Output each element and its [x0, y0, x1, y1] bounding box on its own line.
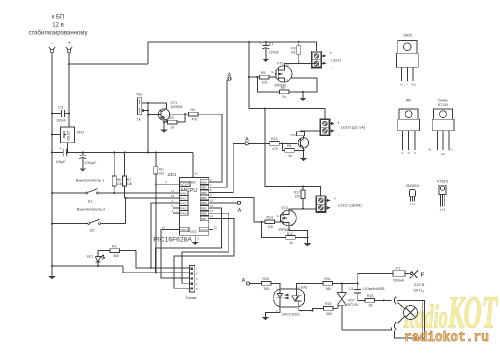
svg-text:14: 14 [195, 172, 199, 176]
pin RB4 [200, 199, 213, 206]
wire mains loop [395, 300, 425, 337]
node junction +12 [68, 63, 70, 65]
svg-text:DA1: DA1 [301, 285, 308, 289]
wire +12 riser x148 [147, 42, 149, 64]
resistor R3 10k [290, 41, 300, 65]
pin RB0 [200, 178, 213, 185]
svg-text:DD1: DD1 [168, 172, 177, 177]
opto internal triac [292, 289, 302, 307]
wire to connector pin1 [136, 251, 190, 268]
svg-text:R8: R8 [287, 144, 292, 148]
svg-text:OSC2: OSC2 [200, 228, 209, 232]
svg-text:360: 360 [113, 254, 119, 258]
svg-text:+: + [260, 42, 262, 46]
SECTION: pot vt1 [137, 93, 222, 183]
package BT139 TO-220 [428, 99, 454, 157]
svg-text:HL1: HL1 [87, 255, 93, 259]
svg-text:VT3: VT3 [290, 133, 296, 137]
switch S1 [51, 178, 179, 204]
svg-text:G: G [401, 151, 403, 155]
svg-text:VT2: VT2 [277, 62, 284, 66]
pin OSC2 [199, 226, 217, 232]
wire RB5 down-around [156, 208, 222, 273]
svg-text:39: 39 [369, 304, 373, 308]
svg-text:A: A [238, 208, 242, 214]
svg-text:Схема: Схема [186, 296, 197, 300]
lamp load [398, 303, 418, 324]
switch S2 [51, 197, 127, 233]
wire OSC1 to connector pin3 [161, 230, 190, 279]
optocoupler DA1 MOC3052 body [274, 285, 308, 316]
node A3 RB4 [213, 201, 242, 214]
transistor VT2 IRF540 [272, 62, 292, 88]
resistor R13 470 [270, 137, 298, 151]
op-amp U1 MCU DD1 body [153, 172, 208, 244]
svg-text:G: G [451, 148, 453, 152]
svg-text:1k: 1k [282, 95, 286, 99]
wire +12 input [68, 53, 70, 127]
svg-text:R15: R15 [325, 302, 331, 306]
svg-text:RA1: RA1 [180, 196, 186, 200]
svg-text:RB0: RB0 [201, 180, 207, 184]
svg-text:R5: R5 [261, 71, 266, 75]
package 7805 TO-220 [397, 33, 419, 87]
label mains voltage [414, 282, 425, 293]
pin RA4 [172, 209, 188, 216]
pin RB3 [200, 193, 213, 200]
svg-text:470: 470 [272, 147, 278, 151]
resistor R15 360 gate [313, 302, 338, 316]
svg-text:RB5: RB5 [201, 206, 207, 210]
svg-text:220uF: 220uF [269, 51, 279, 55]
potentiometer R speed [137, 93, 149, 122]
svg-text:radiokot.ru: radiokot.ru [404, 331, 489, 346]
wire VT4 drain up [289, 209, 303, 211]
svg-text:R11: R11 [325, 277, 331, 281]
SECTION: power input [28, 15, 316, 280]
svg-text:F: F [421, 272, 425, 278]
svg-text:1k: 1k [171, 125, 175, 129]
wire VT1 collector [170, 113, 189, 115]
svg-text:11: 11 [210, 204, 213, 208]
svg-text:э б к: э б к [410, 202, 416, 206]
resistor R17 [294, 187, 305, 210]
svg-text:S: S [287, 79, 289, 83]
resistor R12 1k gate-source [262, 222, 308, 245]
svg-text:VT4: VT4 [281, 206, 288, 210]
svg-text:360: 360 [326, 312, 332, 316]
svg-text:1k: 1k [288, 154, 292, 158]
svg-text:A2: A2 [441, 152, 445, 156]
wire RB3 to R14 [213, 198, 262, 222]
svg-text:R12: R12 [287, 232, 293, 236]
svg-text:10k: 10k [295, 195, 301, 199]
wire VT2 drain rail [289, 62, 317, 64]
capacitor C4 snubber [349, 284, 385, 301]
svg-text:2N3904: 2N3904 [406, 184, 419, 188]
transistor VT1 [147, 101, 182, 122]
svg-text:+: + [68, 41, 71, 47]
package 2N3904 TO-92 [406, 184, 419, 206]
svg-text:Выключатель 2: Выключатель 2 [77, 207, 106, 212]
svg-text:Выключатель 1: Выключатель 1 [76, 178, 105, 183]
resistor R9 1k gate-source [257, 77, 289, 99]
svg-text:R13: R13 [271, 137, 277, 141]
wire node A to R13 [248, 142, 269, 144]
ground main left [48, 266, 56, 279]
pin RB7 [200, 214, 213, 221]
svg-text:R1: R1 [112, 245, 117, 249]
svg-text:100nF: 100nF [56, 119, 66, 123]
svg-text:IRF: IRF [406, 99, 412, 103]
node A2 to RB1 [213, 72, 231, 187]
svg-text:R18: R18 [367, 294, 373, 298]
wire VT4 source down [289, 226, 308, 238]
svg-text:10k: 10k [127, 182, 133, 186]
resistor R2 1k [164, 114, 185, 129]
capacitor C1 220uF [260, 41, 279, 62]
svg-text:1000μF: 1000μF [85, 161, 97, 165]
svg-text:VR1: VR1 [77, 130, 86, 135]
svg-text:7805: 7805 [403, 33, 413, 38]
SECTION: moc triac mains [242, 266, 425, 338]
package KT815 TO-126 [437, 179, 448, 211]
svg-text:10k: 10k [290, 51, 296, 55]
svg-text:R14: R14 [267, 216, 273, 220]
svg-text:RA3: RA3 [180, 206, 186, 210]
resistor R1 360 [98, 245, 136, 259]
svg-text:R2: R2 [170, 116, 175, 120]
SECTION: vt2 led1 [213, 41, 342, 193]
svg-text:18: 18 [171, 194, 175, 198]
svg-text:12 в: 12 в [52, 23, 64, 29]
svg-text:12: 12 [210, 209, 214, 213]
resistor R7 10k pullup [123, 153, 133, 199]
resistor R6 10k pullup [112, 153, 122, 194]
SECTION: watermark [404, 331, 489, 346]
svg-text:стабилизированному: стабилизированному [28, 31, 87, 37]
svg-text:360: 360 [326, 287, 332, 291]
svg-text:MCLR: MCLR [180, 183, 189, 187]
svg-text:Рег.: Рег. [137, 93, 143, 97]
wire HL1 bottom rail [52, 265, 123, 267]
wire +5 rail [52, 152, 193, 154]
SECTION: rails switches [51, 146, 193, 274]
resistor R11 MCLR pullup [154, 153, 180, 274]
svg-text:220 В: 220 В [414, 282, 425, 287]
pin RA0 [171, 189, 188, 196]
pin MCLR [165, 180, 190, 187]
resistor R11b 360 [323, 277, 359, 291]
svg-text:17: 17 [171, 189, 175, 193]
svg-text:78L05: 78L05 [67, 131, 71, 142]
svg-text:э к б: э к б [440, 207, 446, 211]
svg-text:RB4: RB4 [201, 201, 207, 205]
svg-text:+: + [334, 196, 337, 201]
svg-text:2N3904: 2N3904 [171, 105, 183, 109]
SECTION: vt3 led3 [248, 108, 365, 162]
svg-text:100: 100 [268, 225, 274, 229]
wire RB6 to connector pin4 [182, 213, 229, 283]
terminal X- [49, 47, 55, 53]
svg-text:0.01мкФх630В: 0.01мкФх630В [363, 287, 386, 291]
svg-text:RB6: RB6 [201, 212, 207, 216]
resistor R5 100 [248, 71, 276, 85]
svg-text:10: 10 [210, 199, 214, 203]
label power input text [28, 15, 87, 47]
svg-text:C4: C4 [349, 287, 354, 291]
regulator VR1 [51, 127, 85, 153]
capacitor C2 1000uF [79, 153, 96, 172]
pin RB2 [200, 188, 213, 195]
wire RB7 to connector pin5 [174, 218, 234, 288]
svg-text:16: 16 [162, 225, 166, 229]
wire bottom rail to plug [342, 328, 392, 330]
svg-text:RA4: RA4 [180, 211, 186, 215]
wire VDD [193, 153, 198, 178]
svg-text:C3: C3 [58, 105, 64, 110]
pin RB5 [200, 204, 213, 211]
LED HL1 [87, 251, 105, 266]
svg-text:КТ815: КТ815 [437, 179, 448, 183]
node VT1 emitter [163, 121, 165, 123]
wire +12 feed drop x248.9 [248, 41, 250, 43]
svg-text:A: A [242, 278, 246, 284]
fuse F1 [358, 266, 410, 283]
wire opto pin2 to ground [262, 307, 280, 320]
SECTION: packages [397, 33, 454, 212]
SECTION: vt4 led2 [213, 109, 362, 247]
plug contact lower [394, 322, 396, 330]
resistor R8 1k base-emitter [282, 143, 304, 157]
svg-text:10k: 10k [117, 182, 123, 186]
svg-text:S: S [414, 151, 416, 155]
wire VT2 drain up [285, 63, 289, 66]
svg-text:15: 15 [214, 226, 218, 230]
svg-text:VSS: VSS [190, 230, 196, 234]
wire top +12 rail [148, 41, 317, 43]
svg-text:к БП: к БП [52, 15, 65, 21]
terminal X+ [66, 47, 72, 53]
wire RA1 net [125, 197, 180, 199]
svg-text:R9: R9 [281, 86, 285, 90]
pin OSC1 [162, 225, 189, 232]
svg-text:470: 470 [192, 118, 198, 122]
transistor VT3 KT815 [298, 136, 308, 148]
disconnect X mains [410, 270, 425, 278]
svg-text:OSC1: OSC1 [180, 228, 189, 232]
pin RA2 [172, 199, 188, 206]
svg-text:+: + [330, 51, 333, 56]
resistor R14 100 [262, 216, 281, 230]
svg-text:RA2: RA2 [180, 201, 186, 205]
svg-text:10k: 10k [159, 172, 165, 176]
svg-text:1k: 1k [137, 118, 141, 122]
SECTION: mcu [151, 153, 234, 300]
svg-text:S2: S2 [90, 228, 96, 233]
capacitor C5 100uF series [56, 146, 68, 165]
svg-text:A1: A1 [428, 148, 432, 152]
wire VT2 source [289, 78, 317, 92]
svg-text:BT139: BT139 [348, 303, 358, 307]
pin RA3 [172, 204, 188, 211]
svg-text:PIC16F628A: PIC16F628A [153, 237, 192, 244]
svg-text:RB2: RB2 [201, 191, 207, 195]
svg-text:S: S [291, 223, 293, 227]
connector X1 [186, 266, 198, 300]
opto internal LED [277, 289, 289, 307]
svg-text:500мА: 500мА [393, 278, 404, 282]
transistor VT4 IRF540 [277, 206, 297, 232]
svg-text:LED1: LED1 [331, 58, 342, 63]
svg-text:Out: Out [411, 83, 416, 87]
capacitor C3 [51, 105, 70, 123]
svg-text:RB7: RB7 [201, 217, 207, 221]
svg-text:RA0: RA0 [180, 191, 186, 195]
resistor R18 39 [358, 294, 392, 307]
wire RA2 to connector pin1 [151, 203, 180, 268]
wire top rail corner to LED1 [316, 42, 318, 52]
triac VD7 BT139 [337, 284, 358, 330]
wire GND left rail [51, 53, 53, 266]
svg-text:S1: S1 [88, 199, 94, 204]
resistor R4 470 [189, 108, 222, 122]
node A4 input [242, 278, 250, 285]
svg-text:R16: R16 [263, 277, 269, 281]
wire x148 drop [147, 103, 149, 153]
svg-text:360: 360 [264, 287, 270, 291]
pin RA1 [171, 194, 188, 201]
svg-text:LED3 (до 1А): LED3 (до 1А) [341, 124, 366, 129]
svg-text:BT139: BT139 [438, 103, 448, 107]
wire R4 to RB0 [213, 114, 222, 182]
wire opto pin4 [299, 307, 313, 311]
package IRF TO-220 [398, 99, 420, 155]
resistor R16 360 [250, 277, 280, 291]
wire feed to LED3 [249, 109, 325, 119]
wire VT3 emitter + ground [300, 148, 307, 161]
svg-text:C1: C1 [269, 42, 274, 46]
svg-text:100: 100 [262, 80, 268, 84]
wire VSS to ground [192, 235, 200, 245]
wire opto pin6 to R11b [297, 284, 323, 290]
pin RB6 [200, 209, 213, 216]
wire feed drop to LED2 row [265, 109, 321, 196]
terminal block LED3 [320, 119, 366, 138]
wire +12 horizontal [69, 63, 148, 65]
wire LED2 minus to drain node [303, 208, 317, 210]
svg-text:LED2 (ШИМ): LED2 (ШИМ) [338, 203, 362, 208]
pin RB1 [200, 183, 213, 190]
terminal block LED1 [312, 51, 343, 70]
svg-text:100μF: 100μF [56, 160, 66, 164]
svg-text:D: D [408, 151, 410, 155]
svg-text:13: 13 [210, 214, 214, 218]
svg-text:RB1: RB1 [201, 186, 207, 190]
svg-text:50 Гц: 50 Гц [414, 287, 425, 292]
ground VT4 source [304, 238, 311, 247]
node A to RB2 [213, 137, 249, 193]
svg-text:1k: 1k [289, 241, 293, 245]
wire to connector pin2 [123, 266, 190, 273]
resistor VT3 collector small [290, 131, 321, 137]
terminal block LED2 [316, 196, 362, 215]
plug contact upper [394, 297, 396, 305]
svg-text:F1: F1 [396, 266, 400, 270]
svg-text:MOC3052: MOC3052 [282, 312, 299, 316]
ground VT1 [160, 122, 167, 133]
svg-text:R4: R4 [191, 108, 196, 112]
ground VT2 source [299, 92, 306, 101]
svg-text:RB3: RB3 [201, 196, 207, 200]
